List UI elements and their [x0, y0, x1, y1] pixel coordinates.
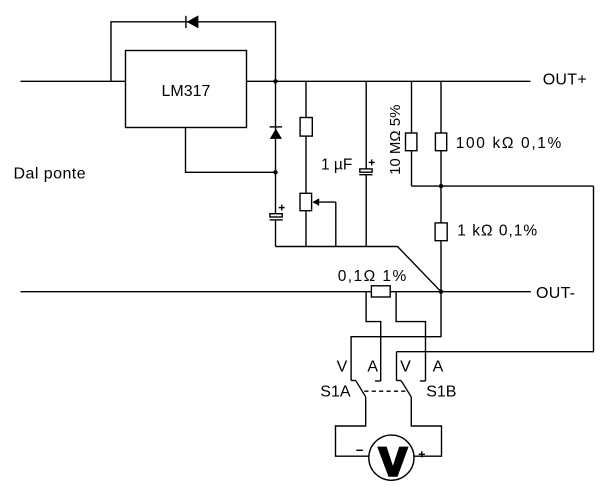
svg-text:V: V [400, 359, 411, 376]
svg-text:S1B: S1B [426, 384, 456, 401]
svg-text:LM317: LM317 [162, 83, 211, 100]
svg-text:10 MΩ 5%: 10 MΩ 5% [387, 104, 404, 174]
svg-text:A: A [433, 359, 444, 376]
svg-text:V: V [337, 359, 348, 376]
svg-text:S1A: S1A [320, 384, 351, 401]
svg-text:0,1Ω 1%: 0,1Ω 1% [338, 268, 408, 285]
svg-text:1 kΩ 0,1%: 1 kΩ 0,1% [457, 223, 538, 240]
svg-text:A: A [367, 359, 378, 376]
svg-text:OUT-: OUT- [536, 285, 575, 302]
svg-text:1 µF: 1 µF [321, 157, 352, 174]
svg-text:OUT+: OUT+ [543, 72, 587, 89]
svg-text:100 kΩ 0,1%: 100 kΩ 0,1% [456, 135, 563, 152]
svg-text:Dal ponte: Dal ponte [14, 166, 87, 183]
